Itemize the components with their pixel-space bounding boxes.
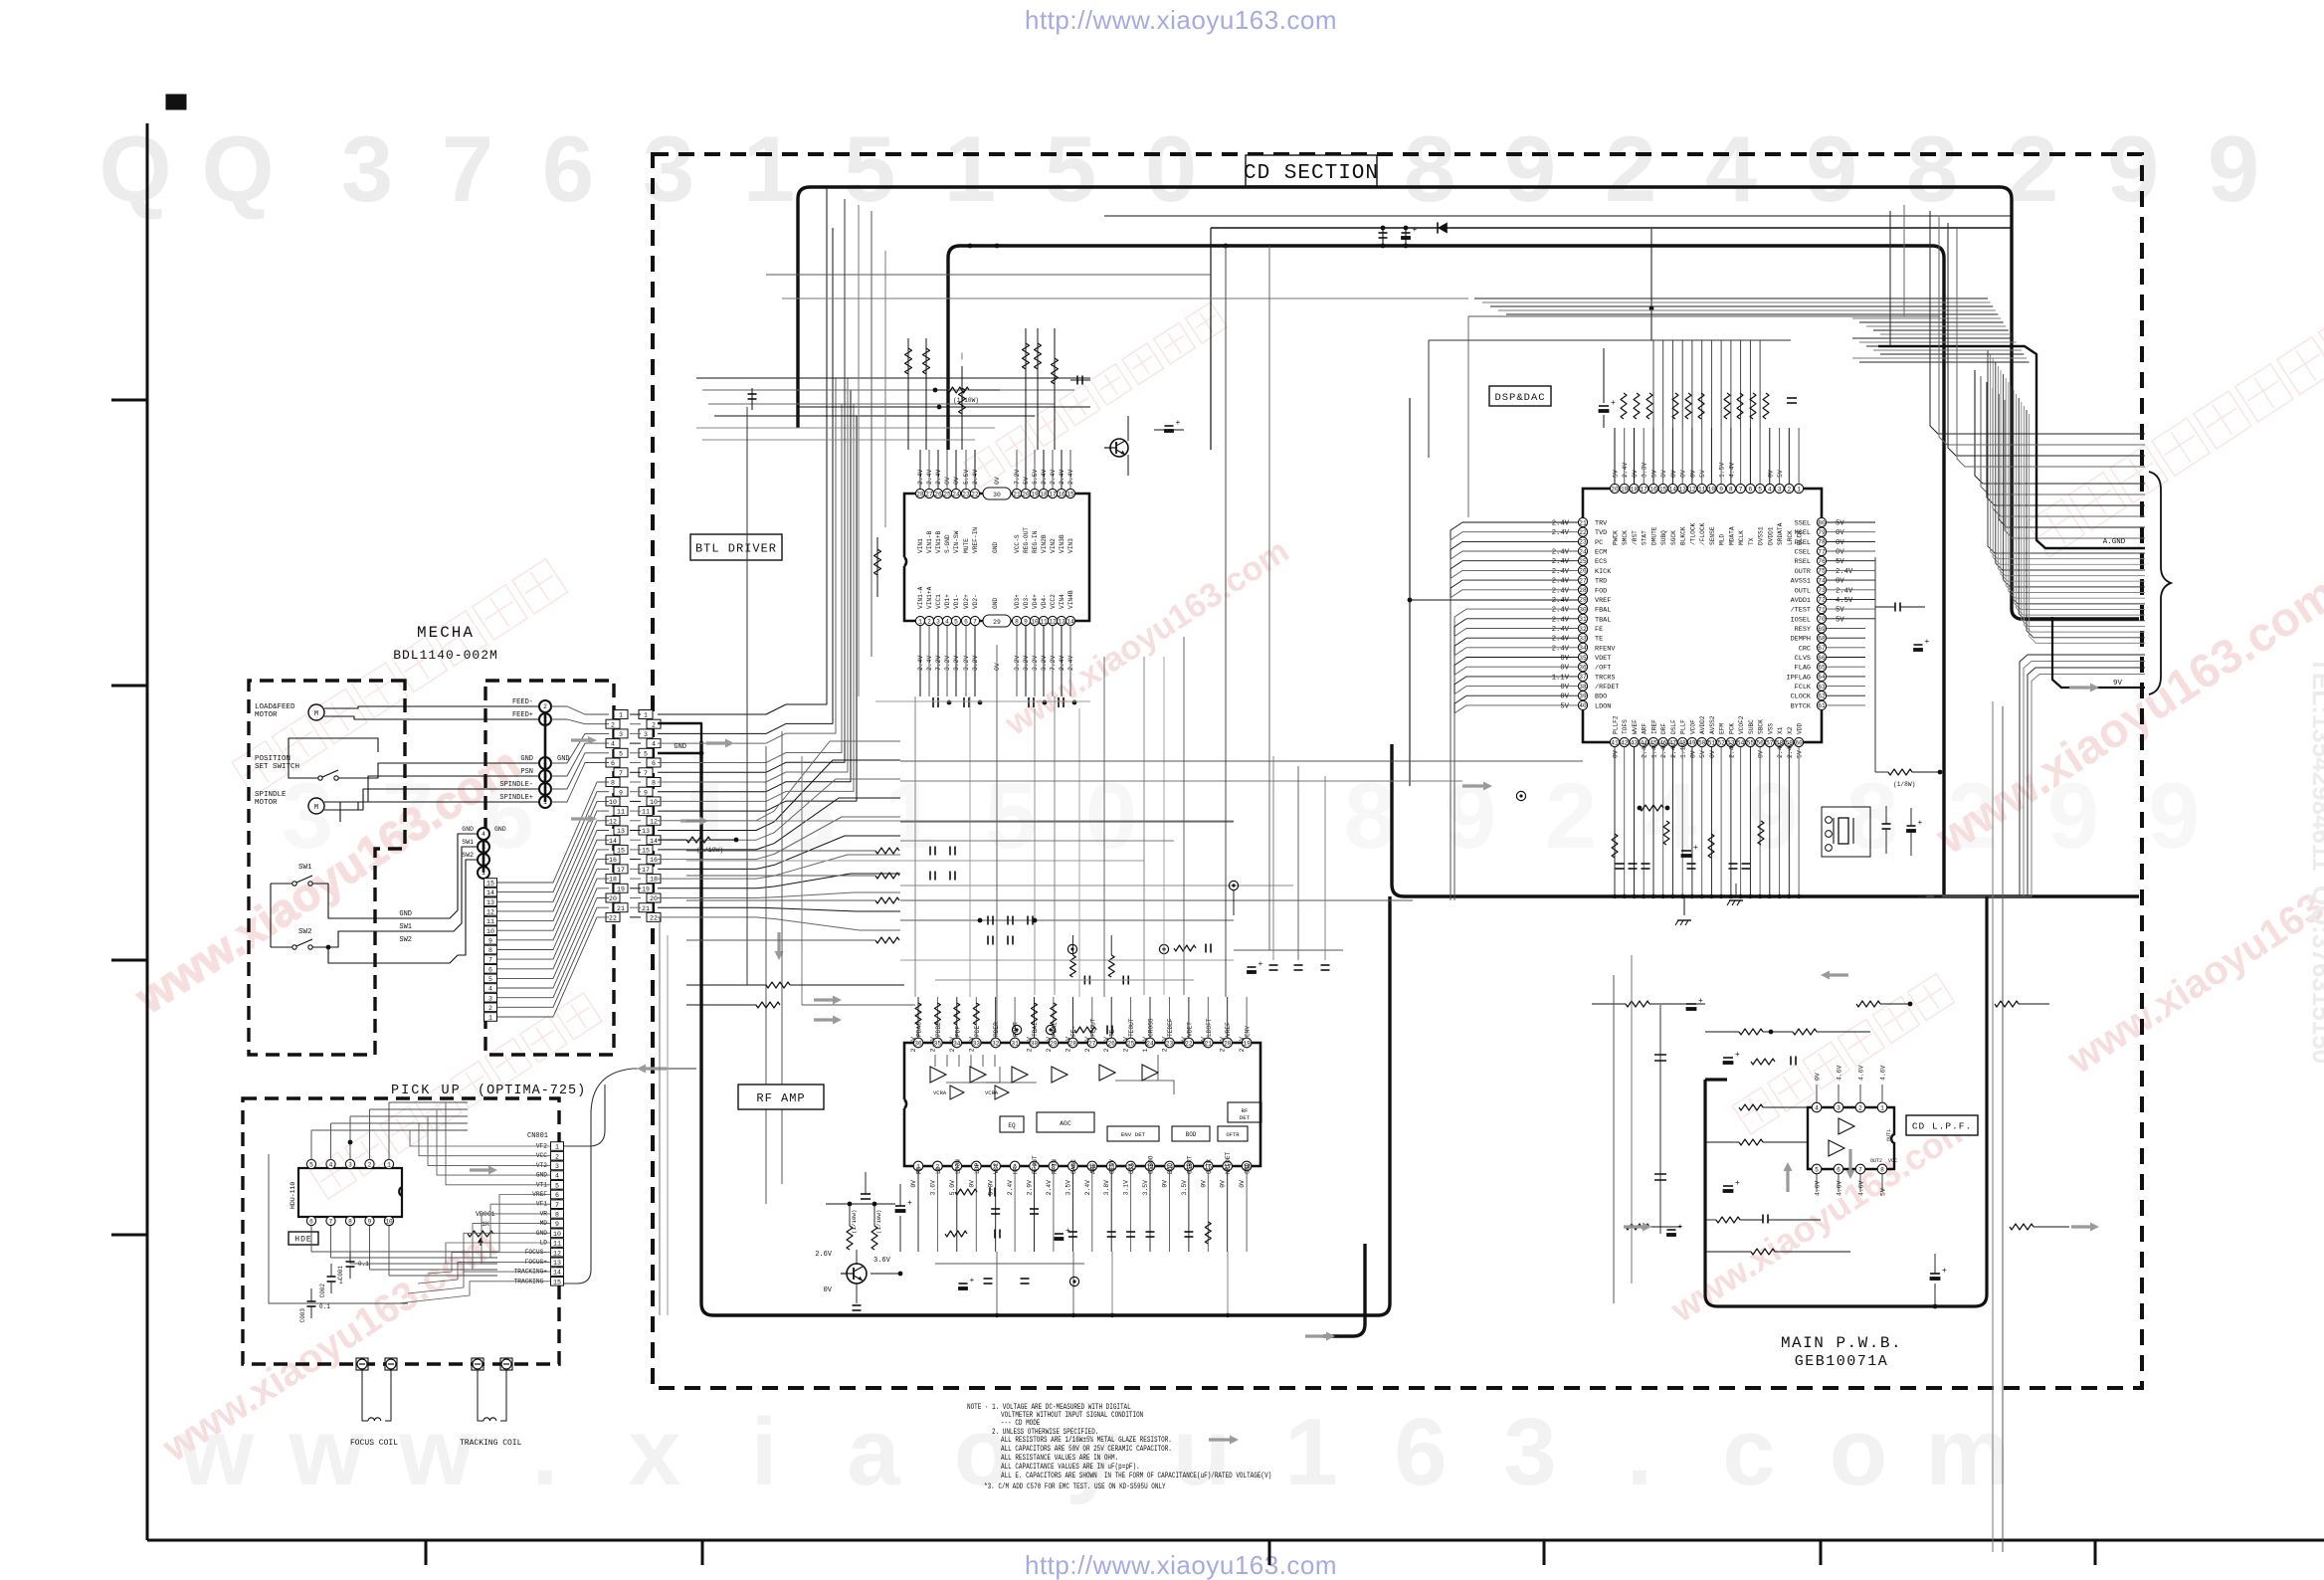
svg-text:SPINDLE+: SPINDLE+ (499, 794, 533, 802)
svg-text:DSP&DAC: DSP&DAC (1494, 392, 1545, 404)
svg-text:8: 8 (1880, 1166, 1884, 1173)
svg-text:0: 0 (1085, 763, 1137, 868)
svg-text:17: 17 (1049, 491, 1057, 497)
svg-text:17: 17 (617, 867, 625, 874)
svg-text:2: 2 (652, 721, 656, 728)
LPF left caps (1659, 1005, 1661, 1234)
svg-text:FE: FE (1595, 626, 1603, 634)
svg-text:0V: 0V (1670, 470, 1677, 478)
svg-text:+: + (1065, 1227, 1070, 1236)
svg-text:VREF-IN: VREF-IN (972, 527, 979, 553)
svg-text:TRD: TRD (1595, 578, 1607, 586)
svg-text:MAIN P.W.B.: MAIN P.W.B. (1781, 1334, 1902, 1352)
LPF outer resistors row (1626, 1001, 1649, 1007)
svg-text:50: 50 (1698, 739, 1706, 746)
svg-text:8: 8 (1906, 116, 1958, 221)
svg-text:19: 19 (617, 886, 625, 892)
svg-text:GEB10071A: GEB10071A (1795, 1353, 1889, 1370)
svg-text:2.4V: 2.4V (1552, 636, 1570, 644)
svg-text:SPINDLE-: SPINDLE- (499, 781, 533, 789)
bottom border tick x706 (701, 1540, 704, 1565)
svg-text:.: . (1627, 1399, 1653, 1505)
svg-text:VDET: VDET (1186, 1022, 1193, 1037)
svg-text:0V: 0V (1220, 1180, 1227, 1188)
svg-text:7: 7 (1858, 1166, 1862, 1173)
svg-text:SW2: SW2 (399, 936, 412, 944)
svg-text:SUBC: SUBC (1748, 719, 1755, 734)
svg-text:OUT1: OUT1 (1886, 1129, 1892, 1141)
svg-text:2.4V: 2.4V (1552, 626, 1570, 634)
resistor 1/10W above BTL (935, 389, 947, 391)
svg-text:15: 15 (486, 881, 494, 888)
bus mid-right rail y901 (1392, 744, 2139, 896)
svg-text:2.4V: 2.4V (1552, 558, 1570, 566)
pink diagonal watermark cluster center (964, 302, 1296, 744)
svg-text:BDL1140-002M: BDL1140-002M (393, 648, 498, 663)
wires from BTL bottom to RF top (947, 696, 1044, 736)
svg-text:62: 62 (1818, 693, 1826, 700)
diode supply line y229 (1211, 227, 2012, 229)
svg-text:1: 1 (1880, 1104, 1884, 1111)
svg-text:TE: TE (1595, 636, 1603, 644)
DSP left pins (1578, 517, 1587, 709)
svg-text:FOCUS COIL: FOCUS COIL (350, 1439, 398, 1448)
op-amp IC HDU-110 (298, 1168, 402, 1217)
svg-text:2.4V: 2.4V (1552, 597, 1570, 605)
svg-text:VIN-SW: VIN-SW (953, 530, 960, 553)
svg-text:A.GND: A.GND (2103, 538, 2126, 546)
svg-text:2.4V: 2.4V (1552, 607, 1570, 615)
pink diagonal watermark cluster right (1926, 309, 2324, 1083)
svg-text:PC: PC (1595, 539, 1603, 547)
svg-text:9: 9 (1024, 618, 1028, 625)
svg-text:RFOUT: RFOUT (1032, 1155, 1039, 1174)
svg-text:4.4V: 4.4V (1728, 462, 1735, 478)
svg-text:DVDD1: DVDD1 (1767, 526, 1774, 545)
svg-text:5V: 5V (1797, 750, 1804, 758)
svg-text:RFENV: RFENV (1595, 645, 1616, 653)
svg-text:8: 8 (1729, 486, 1733, 493)
svg-text:5: 5 (844, 116, 895, 221)
test points above RF AMP (1067, 944, 1076, 953)
svg-text:5: 5 (784, 763, 836, 868)
svg-text:74: 74 (1818, 577, 1826, 584)
svg-text:2.4V: 2.4V (1777, 742, 1784, 758)
svg-text:79: 79 (1818, 529, 1826, 536)
svg-text:2.4V: 2.4V (1642, 743, 1648, 759)
svg-text:24: 24 (1579, 548, 1587, 555)
svg-text:10: 10 (1031, 618, 1039, 625)
long horizontals y276-318 (766, 274, 1211, 276)
mid caps pairs near x1000 (929, 847, 931, 856)
BTL pin names top (917, 527, 1074, 553)
svg-text:MUTE: MUTE (963, 538, 970, 553)
svg-text:18: 18 (1040, 491, 1048, 497)
svg-text:19: 19 (1031, 491, 1039, 497)
svg-text:16: 16 (1649, 486, 1657, 493)
svg-text:SMCK: SMCK (1622, 530, 1629, 545)
svg-text:3.8V: 3.8V (1103, 1180, 1110, 1196)
svg-text:56: 56 (1756, 739, 1764, 746)
bottom border tick x2106 (2094, 1540, 2097, 1565)
svg-text:ARF: ARF (1089, 1163, 1096, 1174)
svg-text:4.6V: 4.6V (1858, 1180, 1865, 1196)
svg-text:2.4V: 2.4V (1007, 1180, 1014, 1196)
svg-text:18: 18 (609, 877, 617, 884)
svg-text:CLVS: CLVS (1795, 655, 1811, 663)
svg-text:2.4V: 2.4V (1552, 549, 1570, 557)
svg-text:7: 7 (488, 957, 492, 964)
verticals near left dashed border (659, 917, 661, 1315)
wires top right corner (1930, 211, 2145, 467)
svg-text:60: 60 (1795, 739, 1803, 746)
svg-text:80: 80 (1818, 519, 1826, 526)
mid vertical wires btl-rf (969, 696, 971, 997)
svg-text:w: w (398, 1399, 474, 1505)
svg-text:6: 6 (1749, 486, 1753, 493)
sheet left border (146, 123, 149, 1540)
svg-text:FBAL: FBAL (1595, 607, 1611, 615)
svg-text:7: 7 (619, 770, 623, 777)
svg-text:24: 24 (952, 491, 960, 497)
svg-text:TEDEF: TEDEF (1167, 1018, 1174, 1037)
svg-text:0V: 0V (1660, 470, 1667, 478)
svg-text:5: 5 (985, 763, 1037, 868)
svg-text:VIN3: VIN3 (1067, 538, 1074, 553)
crystal X1 circuit (1822, 807, 1870, 857)
svg-text:c: c (1722, 1399, 1775, 1505)
svg-text:2: 2 (927, 618, 931, 625)
svg-text:28: 28 (916, 491, 924, 497)
left border tick y1241 (111, 1234, 147, 1237)
svg-text:VD1+: VD1+ (944, 594, 951, 609)
svg-text:2: 2 (1858, 1104, 1862, 1111)
CD SECTION label (1246, 155, 1377, 186)
svg-text:14: 14 (553, 1270, 561, 1277)
svg-text:VIN4: VIN4 (1059, 594, 1065, 609)
svg-text:4.6V: 4.6V (1880, 1065, 1887, 1081)
svg-text:27: 27 (1579, 577, 1587, 584)
svg-text:35: 35 (1579, 655, 1587, 662)
svg-text:C002: C002 (319, 1284, 326, 1298)
svg-text:23: 23 (1579, 539, 1587, 546)
junction dots on mid bus (1613, 894, 1802, 898)
svg-text:TVD: TVD (1595, 529, 1607, 537)
svg-text:3: 3 (644, 731, 648, 738)
svg-text:69: 69 (1818, 626, 1826, 633)
RF AMP top names (916, 1018, 1252, 1037)
BTL bottom pin stubs (920, 626, 1070, 696)
svg-text:3: 3 (488, 995, 492, 1002)
switch wiring (270, 884, 272, 947)
svg-text:FOD: FOD (1595, 587, 1607, 595)
svg-text:TEL:13542984611 QQ:376315150: TEL:13542984611 QQ:376315150 (2307, 657, 2324, 1064)
capacitor left of BTL top (751, 388, 753, 410)
svg-text:12: 12 (1688, 486, 1696, 493)
svg-text:VIN2B: VIN2B (1041, 534, 1048, 553)
svg-text:21: 21 (1579, 519, 1587, 526)
svg-text:2.4V: 2.4V (1836, 587, 1853, 595)
resistor on pin14 wire (658, 839, 686, 841)
svg-text:VD3-: VD3- (1023, 594, 1030, 609)
svg-text:61: 61 (1818, 702, 1826, 709)
svg-text:4: 4 (555, 1173, 559, 1180)
pickup wires to CN001 (311, 1102, 550, 1303)
svg-text:0V: 0V (1632, 470, 1639, 478)
svg-text:DET: DET (1240, 1114, 1251, 1121)
bottom right descending verticals (1992, 701, 1994, 1552)
svg-text:0V: 0V (1181, 1037, 1188, 1045)
svg-text:LDP: LDP (974, 1163, 981, 1174)
svg-text:2: 2 (368, 1161, 372, 1168)
svg-text:2.4V: 2.4V (968, 1037, 975, 1053)
svg-text:WVEF: WVEF (1632, 719, 1639, 734)
svg-text:52: 52 (1717, 739, 1725, 746)
svg-text:IOSEL: IOSEL (1791, 616, 1811, 624)
wire GND pin2 thick (658, 723, 701, 741)
LPF ecaps (1723, 1057, 1733, 1059)
svg-text:8: 8 (348, 1218, 352, 1225)
svg-text:VD4+: VD4+ (1032, 594, 1039, 609)
svg-text:9: 9 (2208, 116, 2259, 221)
svg-text:2.4V: 2.4V (929, 1037, 936, 1053)
svg-text:0V: 0V (1689, 470, 1696, 478)
svg-text:SW1: SW1 (399, 923, 412, 931)
svg-text:FLAG: FLAG (1795, 665, 1811, 673)
svg-text:1: 1 (339, 1279, 343, 1285)
DSP left wires (1451, 522, 1578, 900)
wire y409 into BTL (798, 406, 1090, 408)
svg-text:3.5V: 3.5V (1065, 1180, 1071, 1196)
svg-text:VCOF: VCOF (1689, 719, 1696, 734)
svg-text:32: 32 (1579, 626, 1587, 633)
svg-text:FEED+: FEED+ (512, 711, 533, 719)
svg-text:4: 4 (488, 986, 492, 993)
svg-text:2: 2 (1545, 763, 1597, 868)
DSP left voltages (1552, 520, 1570, 711)
svg-text:M: M (314, 710, 318, 718)
svg-text:68: 68 (1818, 636, 1826, 643)
svg-text:2.4V: 2.4V (1622, 463, 1629, 479)
svg-text:2.4V: 2.4V (1552, 578, 1570, 586)
svg-text:AVSS2: AVSS2 (1709, 715, 1716, 734)
svg-text:DRF: DRF (1660, 723, 1667, 734)
HDU-110 top pins (306, 1159, 393, 1168)
bus top rail y188 (798, 187, 2139, 619)
svg-text:78: 78 (1818, 539, 1826, 546)
svg-text:VIN1-A: VIN1-A (917, 586, 924, 609)
svg-text:MCLK: MCLK (1738, 530, 1745, 545)
svg-text:7: 7 (329, 1218, 333, 1225)
svg-text:+: + (1698, 997, 1703, 1006)
svg-text:9: 9 (1719, 486, 1723, 493)
capacitor C003 (310, 1288, 312, 1301)
DSP bottom pins (1610, 737, 1803, 746)
svg-text:1.4V: 1.4V (1650, 742, 1657, 758)
harness feeder horizontals right of DSP (1474, 298, 2030, 362)
svg-text:3: 3 (1503, 1399, 1556, 1505)
svg-text:OUTR: OUTR (1795, 568, 1811, 576)
electrolytic right of BTL (1154, 429, 1184, 431)
svg-text:VCOF2: VCOF2 (1738, 715, 1745, 734)
svg-text:1: 1 (555, 1144, 559, 1151)
svg-text:GND: GND (674, 743, 686, 751)
svg-text:2.4V: 2.4V (1787, 743, 1794, 759)
svg-text:2.4V: 2.4V (1239, 1037, 1246, 1053)
connector column MECHA-side 22pin (606, 710, 628, 922)
svg-text:2.4V: 2.4V (1046, 1180, 1053, 1196)
svg-text:CSBRT: CSBRT (1186, 1155, 1193, 1174)
svg-text:1K: 1K (482, 1221, 489, 1228)
svg-text:0V: 0V (994, 477, 1001, 485)
svg-text:/TLOCK: /TLOCK (1689, 522, 1696, 545)
BTL bottom voltage labels (917, 655, 1074, 671)
LPF surrounding resistors (1739, 1029, 1763, 1035)
svg-text:6: 6 (1837, 1166, 1840, 1173)
svg-text:CSEL: CSEL (1795, 549, 1811, 557)
svg-text:+: + (1678, 1223, 1683, 1232)
svg-text:65: 65 (1818, 665, 1826, 672)
svg-text:19: 19 (642, 886, 650, 892)
RF AMP bottom names (916, 1151, 1252, 1174)
svg-text:AGC: AGC (1060, 1120, 1071, 1127)
svg-text:13: 13 (1058, 618, 1065, 625)
svg-text:2.4V: 2.4V (1552, 616, 1570, 624)
svg-text:NRFDET: NRFDET (1225, 1151, 1232, 1174)
svg-text:31: 31 (1011, 1040, 1019, 1047)
capacitor at supply line (1382, 228, 1384, 246)
svg-text:20: 20 (650, 895, 658, 902)
svg-text:0: 0 (1145, 116, 1197, 221)
svg-text:0V: 0V (1709, 750, 1716, 758)
connector rings switches (478, 828, 489, 840)
svg-text:5V: 5V (1836, 616, 1844, 624)
svg-text:C003: C003 (299, 1308, 306, 1323)
svg-text:PCK: PCK (1728, 723, 1735, 734)
svg-text:57: 57 (1766, 739, 1774, 746)
svg-text:5V: 5V (1699, 750, 1706, 758)
svg-text:1.1V: 1.1V (1680, 742, 1687, 758)
pink diagonal watermark cluster left (125, 559, 567, 1024)
BTL DRIVER label (690, 534, 782, 560)
svg-text:4: 4 (1705, 116, 1757, 221)
svg-text:8: 8 (488, 947, 492, 954)
svg-text:5V: 5V (1836, 558, 1844, 566)
svg-text:75: 75 (1818, 568, 1826, 575)
svg-text:10: 10 (486, 928, 494, 935)
svg-text:37: 37 (1579, 674, 1587, 681)
left border tick y965 (111, 959, 147, 962)
RF AMP bottom cluster (918, 1171, 1247, 1252)
svg-text:1: 1 (1284, 1399, 1337, 1505)
svg-text:4: 4 (945, 618, 949, 625)
svg-text:MOTOR: MOTOR (255, 711, 278, 719)
svg-text:(1/8W): (1/8W) (1893, 781, 1915, 788)
sheet corner mark (166, 95, 186, 109)
svg-text:3.6V: 3.6V (929, 1180, 936, 1196)
svg-text:3.3V: 3.3V (1642, 463, 1648, 479)
svg-text:BDO: BDO (1595, 693, 1607, 701)
svg-text:5V: 5V (1836, 520, 1844, 528)
components below DSP (1616, 863, 1625, 865)
svg-text:0V: 0V (1836, 578, 1844, 586)
svg-text:10: 10 (609, 799, 617, 806)
pickup to CD section return wire (564, 1069, 696, 1284)
svg-text:ALL RESISTANCE VALUES ARE IN O: ALL RESISTANCE VALUES ARE IN OHM. (1001, 1454, 1118, 1463)
svg-text:9: 9 (1806, 116, 1857, 221)
electrolytic capacitor at supply line (1405, 228, 1407, 246)
svg-text:9: 9 (555, 1221, 559, 1228)
svg-text:20: 20 (609, 895, 617, 902)
svg-text:1: 1 (944, 116, 996, 221)
svg-text:43: 43 (1631, 739, 1639, 746)
svg-text:5: 5 (619, 750, 623, 757)
capacitor C001 (349, 1252, 351, 1262)
svg-text:VCC: VCC (993, 1163, 1000, 1174)
svg-text:HDU-110: HDU-110 (290, 1182, 296, 1209)
svg-text:OFTR: OFTR (1206, 1159, 1213, 1174)
svg-text:20: 20 (1611, 486, 1619, 493)
svg-text:29: 29 (1579, 597, 1587, 604)
horizontal feeder above DSP (1429, 339, 1791, 341)
svg-text:VCRA: VCRA (985, 1089, 999, 1096)
svg-text:11: 11 (553, 1241, 561, 1248)
bottom border tick x1552 (1543, 1540, 1546, 1565)
svg-text:o: o (1830, 1399, 1888, 1505)
svg-text:0V: 0V (1560, 655, 1569, 663)
DSP right wires (1827, 522, 1875, 705)
svg-text:14: 14 (486, 889, 494, 896)
svg-text:38: 38 (1579, 684, 1587, 691)
sheet bottom border (147, 1539, 2324, 1542)
BTL driver IC body (904, 494, 1089, 621)
svg-text:0.1: 0.1 (358, 1261, 369, 1268)
svg-text:10: 10 (1708, 486, 1716, 493)
svg-text:6: 6 (309, 1218, 313, 1225)
focus coil (361, 1370, 363, 1411)
svg-text:SUBQ: SUBQ (1660, 530, 1667, 545)
right mid components (1874, 557, 1876, 772)
svg-text:SGCK: SGCK (1670, 530, 1677, 545)
svg-text:DSLF: DSLF (1670, 719, 1677, 734)
svg-text:VIN3B: VIN3B (1059, 534, 1065, 553)
svg-text:VDD: VDD (1797, 723, 1804, 734)
svg-text:4.6V: 4.6V (1858, 1065, 1865, 1081)
DSP top riser bundle (1653, 340, 1760, 428)
svg-text:TRACKING COIL: TRACKING COIL (460, 1439, 522, 1448)
svg-text:VCC-S: VCC-S (1014, 534, 1021, 553)
left tall wires (765, 746, 767, 1204)
svg-text:67: 67 (1818, 645, 1826, 652)
svg-text:0V: 0V (994, 663, 1001, 671)
svg-text:|: | (960, 353, 964, 361)
svg-text:2: 2 (611, 721, 615, 728)
svg-text:SW1: SW1 (462, 839, 474, 846)
svg-text:REG-IN: REG-IN (1032, 530, 1039, 553)
svg-text:0V: 0V (1200, 1180, 1207, 1188)
svg-text:4: 4 (482, 831, 485, 838)
svg-text:2.4V: 2.4V (1552, 529, 1570, 537)
svg-text:PDF: PDF (954, 1026, 961, 1037)
svg-text:RESY: RESY (1795, 626, 1811, 634)
svg-text:AVDD2: AVDD2 (1699, 715, 1706, 734)
svg-text:29: 29 (993, 619, 1001, 626)
svg-text:0V: 0V (1758, 750, 1765, 758)
svg-text:2.4V: 2.4V (1027, 1037, 1034, 1053)
DSP&DAC IC body (1583, 489, 1822, 742)
right harness main bundle (1988, 350, 2145, 643)
transistor Q bottom (847, 1264, 867, 1284)
